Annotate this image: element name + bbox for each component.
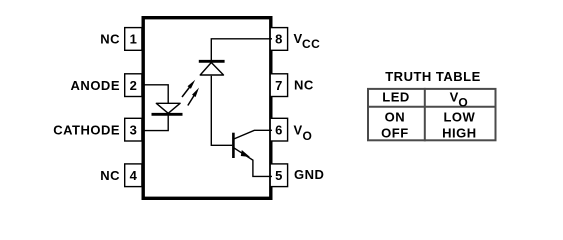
transistor Q1 collector wire to pin6 bbox=[234, 130, 272, 139]
pin 6 label VO bbox=[294, 123, 313, 143]
truth table cell ON bbox=[385, 110, 406, 125]
svg-text:O: O bbox=[303, 129, 313, 143]
svg-text:5: 5 bbox=[275, 168, 283, 183]
pin 2 box bbox=[125, 74, 142, 97]
LED D1 triangle bbox=[156, 103, 180, 113]
photodiode cathode bar bbox=[199, 60, 225, 63]
truth table title bbox=[385, 69, 481, 84]
truth table outer border bbox=[368, 89, 496, 140]
transistor Q1 emitter arrowhead bbox=[241, 150, 250, 157]
truth table header VO bbox=[450, 90, 469, 110]
wire LED cathode to pin3 bbox=[143, 115, 168, 131]
svg-text:1: 1 bbox=[130, 32, 138, 47]
truth table cell LOW bbox=[443, 110, 475, 125]
pin 3 box bbox=[125, 118, 142, 141]
svg-text:8: 8 bbox=[275, 32, 283, 47]
svg-text:NC: NC bbox=[294, 78, 314, 93]
svg-text:2: 2 bbox=[130, 78, 138, 93]
svg-text:ANODE: ANODE bbox=[71, 78, 120, 93]
pin 8 box bbox=[270, 28, 287, 51]
pin 8 label VCC bbox=[294, 31, 321, 51]
pin 4 label NC bbox=[100, 168, 120, 183]
pin 1 number bbox=[130, 32, 138, 47]
photodiode triangle bbox=[200, 63, 223, 76]
pin 8 number bbox=[275, 32, 283, 47]
pin 7 number bbox=[275, 78, 283, 93]
IC package body bbox=[143, 18, 271, 199]
svg-text:NC: NC bbox=[100, 168, 120, 183]
svg-text:4: 4 bbox=[130, 168, 138, 183]
svg-text:CATHODE: CATHODE bbox=[53, 122, 120, 137]
pin 6 box bbox=[270, 118, 287, 141]
wire pin8 to photodiode cathode bbox=[211, 39, 272, 60]
pin 5 number bbox=[275, 168, 283, 183]
pin 1 label NC bbox=[100, 32, 120, 47]
transistor Q1 emitter wire to pin5 bbox=[234, 148, 272, 177]
svg-text:OFF: OFF bbox=[381, 125, 409, 140]
svg-text:LED: LED bbox=[382, 89, 410, 104]
pin 3 number bbox=[130, 122, 138, 137]
pin 2 number bbox=[130, 78, 138, 93]
pin 3 label CATHODE bbox=[53, 122, 120, 137]
light emission arrow 1 bbox=[182, 80, 195, 97]
svg-text:GND: GND bbox=[294, 167, 324, 182]
pin 7 box bbox=[270, 74, 287, 97]
svg-text:O: O bbox=[458, 95, 468, 109]
truth table cell HIGH bbox=[442, 125, 477, 140]
svg-text:CC: CC bbox=[302, 37, 320, 51]
wire pin2 to LED anode bbox=[143, 85, 168, 103]
svg-text:NC: NC bbox=[100, 32, 120, 47]
svg-text:TRUTH TABLE: TRUTH TABLE bbox=[385, 69, 481, 84]
transistor Q1 base bar bbox=[232, 133, 235, 158]
pin 7 label NC bbox=[294, 78, 314, 93]
svg-text:HIGH: HIGH bbox=[442, 125, 477, 140]
svg-text:LOW: LOW bbox=[443, 110, 475, 125]
truth table cell OFF bbox=[381, 125, 409, 140]
light emission arrow 2 bbox=[188, 88, 199, 106]
LED D1 cathode bar bbox=[152, 113, 183, 116]
svg-text:6: 6 bbox=[275, 122, 283, 137]
pin 4 box bbox=[125, 164, 142, 187]
svg-text:3: 3 bbox=[130, 122, 138, 137]
pin 2 label ANODE bbox=[71, 78, 120, 93]
svg-text:V: V bbox=[450, 90, 459, 105]
pin 5 label GND bbox=[294, 167, 324, 182]
truth table header LED bbox=[382, 89, 410, 104]
truth table column divider bbox=[424, 88, 426, 141]
pin 5 box bbox=[270, 164, 287, 187]
pin 6 number bbox=[275, 122, 283, 137]
svg-text:ON: ON bbox=[385, 110, 406, 125]
svg-text:7: 7 bbox=[275, 78, 283, 93]
pin 4 number bbox=[130, 168, 138, 183]
svg-text:V: V bbox=[294, 123, 303, 138]
pin 1 box bbox=[125, 28, 142, 51]
truth table header divider bbox=[367, 106, 497, 108]
wire photodiode anode to transistor base bbox=[211, 76, 232, 146]
